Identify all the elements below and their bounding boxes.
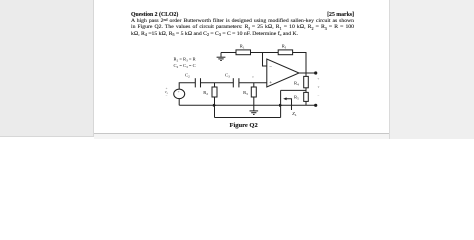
wire R3 bottom lead to rail [253, 97, 255, 105]
wire bootstrap vertical up to tap [280, 90, 282, 117]
resistor R5 [304, 92, 309, 101]
svg-text:−: − [166, 94, 168, 98]
wire source bottom to ground rail [178, 99, 180, 106]
svg-text:ZL: ZL [292, 111, 296, 117]
ground top (inverting network) [217, 53, 226, 61]
capacitor C2 [195, 78, 200, 87]
ground bottom rail [250, 105, 259, 114]
wire R4 top lead [305, 73, 307, 76]
svg-text:R5: R5 [294, 94, 299, 100]
wire op-amp output [299, 72, 316, 74]
svg-text:−: − [317, 94, 319, 98]
wire R5 bottom lead [305, 101, 307, 105]
junction hop R2 lead over rail [213, 104, 217, 107]
source Vs [174, 89, 185, 99]
svg-text:R4: R4 [294, 80, 299, 86]
svg-text:C2: C2 [185, 73, 190, 79]
wire R4 bottom to R5 top [305, 88, 307, 93]
svg-text:R3: R3 [243, 90, 248, 96]
wire top rail from ground to R1 [221, 52, 236, 54]
left gray margin panel [0, 0, 94, 137]
wire tap between R4 R5 to bootstrap [281, 89, 306, 91]
junction hop bootstrap over rail [279, 104, 283, 107]
svg-text:v: v [252, 75, 254, 79]
resistor R2 [212, 87, 217, 97]
wire C2 to C3 [201, 82, 234, 84]
svg-text:+: + [178, 90, 180, 94]
wire R2 top lead [214, 83, 216, 87]
resistor Rf [278, 50, 292, 55]
svg-text:Rf: Rf [282, 43, 287, 49]
svg-text:R2: R2 [203, 90, 208, 96]
resistor R1 [236, 50, 251, 55]
wire R2 bottom crossing to loop [214, 97, 216, 118]
wire bottom ground rail [179, 104, 316, 106]
svg-text:C3: C3 [225, 73, 230, 79]
svg-text:v: v [318, 85, 320, 89]
wire C3 to non-inverting input [239, 82, 267, 84]
wire R3 top lead [253, 83, 255, 87]
svg-text:+: + [269, 81, 272, 86]
capacitor C3 [233, 78, 239, 87]
right gray margin panel [389, 0, 474, 139]
svg-text:R2 = R3 = R: R2 = R3 = R [174, 57, 197, 63]
resistor R4 [304, 76, 309, 87]
label ZL arrow [286, 99, 292, 110]
op-amp U1 [267, 59, 299, 87]
node output top dot [314, 71, 317, 74]
svg-text:R1: R1 [240, 43, 245, 49]
resistor R3 [251, 87, 256, 97]
node output bottom dot [314, 104, 317, 107]
svg-text:−: − [269, 65, 272, 70]
svg-text:C2 = C3 = C: C2 = C3 = C [174, 63, 196, 69]
wire source top corner to C2 [179, 83, 195, 89]
wire Rf to right corner down to output [293, 53, 306, 74]
wire bootstrap loop bottom [215, 117, 281, 119]
wire inverting input jog [263, 53, 267, 67]
wire R1 to Rf with tap to inverting input [251, 52, 279, 54]
svg-text:+: + [317, 77, 319, 81]
